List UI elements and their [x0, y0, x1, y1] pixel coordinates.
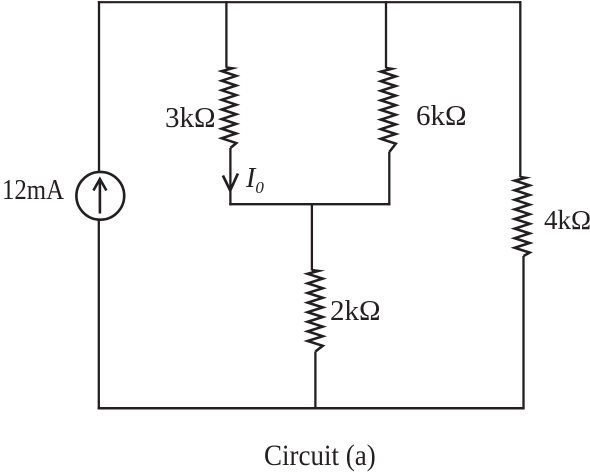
label 3kOhm — [165, 104, 216, 133]
label 6kOhm — [416, 102, 467, 131]
label 2kOhm — [330, 297, 381, 326]
wire left branch lower — [98, 220, 100, 410]
caption Circuit (a) — [264, 441, 376, 471]
wire 2k branch bottom — [314, 352, 316, 410]
resistor R1 3kOhm — [222, 68, 237, 149]
label I0 — [246, 165, 264, 196]
wire 6k branch bottom — [388, 152, 390, 205]
label 12mA — [2, 176, 64, 205]
current source IS1 12mA — [76, 172, 124, 220]
wire right branch lower — [522, 256, 524, 409]
resistor R3 4kOhm — [515, 177, 530, 256]
wire bottom rail — [98, 407, 525, 410]
wire right branch upper — [519, 1, 521, 177]
resistor R2 6kOhm — [381, 68, 396, 152]
resistor R4 2kOhm — [308, 270, 323, 351]
wire 2k branch top — [311, 203, 313, 270]
wire left branch upper — [98, 1, 100, 172]
wire 3k branch top — [225, 1, 227, 68]
arrow I0 current direction — [223, 174, 238, 191]
wire top rail — [98, 1, 522, 3]
label 4kOhm — [544, 207, 590, 234]
wire 3k branch bottom — [229, 148, 231, 205]
wire 6k branch top — [385, 1, 387, 68]
wire middle rail — [229, 203, 390, 205]
